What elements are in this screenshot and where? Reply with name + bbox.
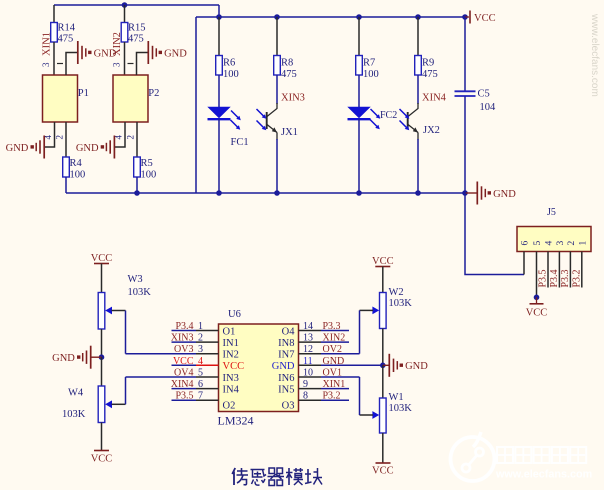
net label P3.3 right [323,321,341,332]
wire rail junction down elbow [465,193,524,275]
wire P2 pin1 to GND elbow [137,53,149,76]
W3 wiper arrow [105,307,125,315]
label JX1 [281,127,298,138]
pin 3 label P1 [41,62,63,67]
wire W4 wiper to OV4 [126,377,172,404]
U6 pin number 4 [198,356,203,367]
resistor R7 [356,56,379,81]
W1 wiper arrow [360,411,380,419]
wire J5 pin P3.3 [569,252,571,288]
wire U6 pin 9 stub [299,388,350,390]
svg-text:www.elecfans.com: www.elecfans.com [495,469,592,481]
svg-text:GND: GND [493,189,516,200]
junction dot rail x277 [274,190,280,196]
resistor R9 [415,56,438,81]
wire R15 top lead [124,5,126,23]
svg-text:GND: GND [6,143,29,154]
svg-text:VCC: VCC [372,256,394,267]
svg-text:XIN4: XIN4 [171,379,194,390]
junction dot rail2 x465 [462,14,468,20]
U6 internal label IN6 [278,373,294,384]
wire W2 wiper to OV2 [359,310,361,353]
net label XIN2 [112,32,123,56]
svg-text:GND: GND [405,361,428,372]
ground GND W3 W4 [52,346,101,369]
svg-text:J5: J5 [547,207,556,218]
pin 4 label P1 [43,135,53,140]
title sensor module char 模 [286,468,303,485]
U6 internal label GND [272,361,295,372]
op-amp U6 box [219,324,299,412]
svg-text:104: 104 [480,102,497,113]
net label VCC left [173,356,194,367]
svg-text:IN5: IN5 [278,384,294,395]
svg-text:4: 4 [198,356,203,367]
svg-text:103K: 103K [62,409,86,420]
svg-text:P3.2: P3.2 [571,269,582,287]
svg-text:XIN1: XIN1 [323,379,346,390]
power VCC right bottom [372,463,394,477]
LED FC2 [348,107,371,119]
svg-text:GND: GND [164,48,187,59]
svg-text:GND: GND [272,361,295,372]
J5 pin number 4 [545,241,555,246]
wire U6 pin 3 stub [172,353,219,355]
svg-text:103K: 103K [389,298,413,309]
wire rail2 to R9 [417,17,419,56]
J5 pin number 3 [556,241,566,246]
U6 pin number 12 [303,344,313,355]
resistor R4 [63,157,86,181]
pin 3 label P2 [112,62,134,67]
junction dot right GND [380,363,386,369]
wire JX2 to rail [417,139,419,193]
svg-text:P3.2: P3.2 [323,391,341,402]
wire rail2 to R8 [276,17,278,56]
U6 pin number 1 [198,321,203,332]
wire U6 pin 10 stub [299,376,360,378]
svg-text:475: 475 [281,69,297,80]
wire rail2 to C5 [464,17,466,91]
pin 4 label P2 [114,135,124,140]
label J5 [547,207,556,218]
ground GND P1 top [78,41,117,64]
U6 pin number 6 [198,379,203,390]
LED FC1 [208,107,231,119]
resistor R8 [274,56,297,81]
wire VCC to W2 [382,267,384,294]
svg-text:P1: P1 [78,88,89,99]
svg-text:VCC: VCC [474,13,496,24]
U6 internal label IN8 [278,338,294,349]
svg-text:FC1: FC1 [231,137,249,148]
net label P3.2 right [323,391,341,402]
net label GND right [323,356,345,367]
resistor R5 [134,157,157,181]
svg-text:IN8: IN8 [278,338,294,349]
svg-text:1: 1 [578,241,588,246]
svg-text:100: 100 [363,69,379,80]
label U6 [228,309,241,320]
wire GND node to W1 [382,365,384,398]
svg-text:GND: GND [76,143,99,154]
svg-text:P3.4: P3.4 [549,269,560,287]
wire U6 pin 12 stub [299,353,360,355]
svg-text:R14: R14 [58,23,76,34]
wire U6 pin 1 stub [172,330,219,332]
wire R4 to bottom rail [65,177,67,193]
svg-text:3: 3 [198,344,203,355]
junction dot left GND [99,354,105,360]
wire W3 to GND node [101,329,103,357]
resistor R15 [121,23,145,45]
svg-text:2: 2 [55,135,65,140]
svg-text:GND: GND [323,356,345,367]
U6 internal label VCC [223,361,245,372]
net label XIN4 [422,93,447,104]
wire GND node to W4 [101,357,103,386]
LED FC1 emission arrows [231,111,241,130]
svg-text:XIN2: XIN2 [323,333,346,344]
U6 internal label IN7 [278,350,294,361]
ground GND P1 bottom [6,136,45,159]
U6 internal label O2 [223,401,236,412]
net label P3.4 [549,269,560,287]
pin 2 label P1 [55,135,65,140]
svg-text:XIN3: XIN3 [171,333,194,344]
svg-text:LM324: LM324 [218,414,254,428]
svg-text:IN2: IN2 [223,350,239,361]
net label OV3 left [174,344,193,355]
U6 internal label O4 [282,326,296,337]
wire W3 wiper to OV3 [126,311,172,354]
net label OV1 right [323,368,342,379]
svg-text:P3.4: P3.4 [175,321,193,332]
U6 internal label O3 [282,401,295,412]
svg-text:W3: W3 [128,274,143,285]
net label P3.2 [571,269,582,287]
capacitor C5 [455,89,497,114]
svg-text:P3.3: P3.3 [560,269,571,287]
junction dot rail x219 [216,190,222,196]
net label P3.5 left [175,391,193,402]
wire U6 pin 8 stub [299,399,350,401]
ground GND P2 top [148,41,187,64]
watermark vertical url top right [589,13,600,97]
junction dot rail x465 [462,190,468,196]
junction dot rail x418 [415,190,421,196]
potentiometer W3 [98,274,151,329]
wire W2 to GND node [382,329,384,366]
U6 pin number 9 [303,379,308,390]
svg-text:9: 9 [303,379,308,390]
wire top rail 2 [196,16,465,18]
junction dot node XIN2 top [122,2,128,8]
W2 wiper arrow [360,307,380,315]
potentiometer W2 [380,287,413,329]
wire P2 pin2 to R5 [136,122,138,157]
svg-text:GND: GND [52,353,75,364]
net label XIN1 right [323,379,346,390]
title sensor module char 块 [305,468,322,485]
connector P2 [113,75,159,122]
ground GND right rail [465,182,516,205]
svg-text:OV4: OV4 [174,368,193,379]
wire W4 to VCC bottom [101,423,103,451]
J5 pin number 1 [578,241,588,246]
wire J5 pin 6 [523,252,525,275]
svg-text:4: 4 [545,241,555,246]
wire rail2 to R6 [218,17,220,56]
net label P3.4 left [175,321,193,332]
svg-text:475: 475 [422,69,438,80]
connector P1 [43,75,89,122]
svg-text:7: 7 [198,391,203,402]
net label XIN3 left [171,333,194,344]
svg-text:W4: W4 [68,388,84,399]
svg-text:100: 100 [70,170,86,181]
svg-text:W1: W1 [389,392,404,403]
svg-text:GND: GND [94,48,117,59]
W4 wiper arrow [105,400,125,408]
svg-text:475: 475 [58,34,74,45]
svg-text:8: 8 [303,391,308,402]
svg-text:13: 13 [303,333,313,344]
wire left boundary x196 [195,17,197,193]
wire R9 to JX2 [417,75,419,104]
U6 internal label O1 [223,326,236,337]
svg-text:VCC: VCC [91,253,113,264]
JX1 receive arrows [257,109,267,130]
wire R8 to JX1 [276,75,278,104]
svg-text:2: 2 [126,135,136,140]
svg-text:IN1: IN1 [223,338,239,349]
U6 internal label IN3 [223,373,239,384]
wire R7 to LED FC2 [358,75,360,108]
svg-text:P3.3: P3.3 [323,321,341,332]
wire W1 to VCC bottom [382,433,384,463]
power VCC right top [372,256,394,267]
U6 internal label IN5 [278,384,294,395]
svg-text:3: 3 [556,241,566,246]
junction dot rail2 x219 [216,14,222,20]
svg-text:JX2: JX2 [423,125,440,136]
svg-text:OV3: OV3 [174,344,193,355]
wire R6 to LED FC1 [218,75,220,108]
svg-text:5: 5 [198,368,203,379]
svg-text:O3: O3 [282,401,295,412]
svg-text:VCC: VCC [372,466,394,477]
svg-text:12: 12 [303,344,313,355]
label LM324 [218,414,254,428]
junction dot rail x137 [134,190,140,196]
U6 internal label IN4 [223,384,240,395]
svg-text:OV2: OV2 [323,344,342,355]
resistor R14 [51,23,76,45]
wire bottom rail [66,192,465,194]
svg-text:R9: R9 [422,58,434,69]
svg-text:3: 3 [41,62,51,67]
ground GND P2 bottom [76,136,115,159]
net label P3.5 [538,269,549,287]
wire J5 pin P3.5 [547,252,549,288]
wire rail2 to R7 [358,17,360,56]
junction dot rail2 x418 [415,14,421,20]
U6 internal label IN2 [223,350,239,361]
svg-text:VCC: VCC [526,308,548,319]
wire P1 pin2 to R4 [65,122,67,157]
power VCC top right [465,11,496,25]
junction dot rail2 x277 [274,14,280,20]
wire U6 pin 11 stub [299,364,383,366]
wire U6 pin 5 stub [172,376,219,378]
LED FC2 emission arrows [370,109,380,129]
wire R14 to P1 pin 3 [53,42,55,75]
svg-text:IN4: IN4 [223,384,240,395]
wire R15 to P2 pin 3 [124,42,126,75]
label FC2 [380,110,397,121]
connector J5 [517,227,591,252]
svg-text:103K: 103K [128,287,152,298]
watermark text dianzifashaoyou [497,447,586,463]
U6 pin number 10 [303,368,313,379]
potentiometer W1 [380,392,413,433]
wire C5 to rail [464,97,466,194]
svg-text:R15: R15 [128,23,146,34]
title sensor module char 感 [251,470,267,486]
label FC1 [231,137,249,148]
svg-text:JX1: JX1 [281,127,298,138]
svg-text:IN7: IN7 [278,350,294,361]
wire U6 pin 14 stub [299,330,350,332]
svg-text:475: 475 [128,34,144,45]
svg-text:O4: O4 [282,326,296,337]
svg-text:5: 5 [533,241,543,246]
svg-text:2: 2 [567,241,577,246]
wire R14 top lead [53,5,55,23]
svg-text:OV1: OV1 [323,368,342,379]
wire FC1 to rail [218,119,220,193]
svg-text:VCC: VCC [223,361,245,372]
watermark url bottom [495,469,592,481]
svg-text:R6: R6 [223,58,235,69]
svg-text:R4: R4 [70,158,83,169]
junction dot rail x359 [356,190,362,196]
svg-text:1: 1 [198,321,203,332]
power VCC left bottom [91,451,113,465]
wire top rail 1 [54,4,219,6]
net label P3.3 [560,269,571,287]
transistor JX2 [408,103,418,140]
wire U6 pin 7 stub [172,399,219,401]
wire J5 pin 5 to VCC [536,252,538,298]
net label XIN1 [42,32,53,56]
svg-text:XIN4: XIN4 [422,93,447,104]
svg-text:O1: O1 [223,326,236,337]
svg-text:3: 3 [112,62,122,67]
svg-text:www.elecfans.com: www.elecfans.com [589,13,600,97]
wire rail1 to rail2 drop [218,5,220,17]
U6 pin number 13 [303,333,313,344]
wire FC2 to rail [358,119,360,193]
svg-text:VCC: VCC [91,454,113,465]
power VCC J5 [526,297,548,318]
J5 pin number 5 [533,241,543,246]
J5 pin number 6 [521,241,531,246]
junction dot rail2 x359 [356,14,362,20]
net label OV2 right [323,344,342,355]
svg-text:6: 6 [521,241,531,246]
U6 pin number 14 [303,321,313,332]
svg-text:XIN3: XIN3 [281,93,305,104]
svg-text:11: 11 [303,356,313,367]
wire W1 wiper to OV1 [359,377,361,415]
svg-text:R5: R5 [141,158,153,169]
net label OV4 left [174,368,193,379]
svg-text:P2: P2 [148,88,159,99]
svg-text:P3.5: P3.5 [175,391,193,402]
svg-text:IN6: IN6 [278,373,294,384]
power VCC left top [91,253,113,264]
wire P1 pin4 to GND elbow [44,122,55,147]
resistor R6 [216,56,239,81]
JX2 receive arrows [400,109,410,130]
U6 pin number 11 [303,356,313,367]
wire J5 pin P3.2 [581,252,583,288]
svg-text:IN3: IN3 [223,373,239,384]
title sensor module char 器 [268,468,285,486]
wire JX1 to rail [276,139,278,193]
svg-text:103K: 103K [389,403,413,414]
U6 pin number 3 [198,344,203,355]
svg-text:FC2: FC2 [380,110,397,121]
svg-text:U6: U6 [228,309,241,320]
svg-text:R8: R8 [281,58,293,69]
U6 internal label IN1 [223,338,239,349]
wire R5 to bottom rail [136,177,138,193]
watermark logo circle [451,432,495,481]
J5 pin number 2 [567,241,577,246]
label JX2 [423,125,440,136]
U6 pin number 5 [198,368,203,379]
net label XIN4 left [171,379,194,390]
wire P2 pin4 to GND elbow [114,122,125,147]
net label XIN3 [281,93,305,104]
U6 pin number 2 [198,333,203,344]
wire VCC to W3 [101,264,103,294]
svg-text:14: 14 [303,321,313,332]
svg-text:W2: W2 [389,287,404,298]
wire U6 pin 2 stub [172,341,219,343]
svg-text:R7: R7 [363,58,375,69]
wire P1 pin1 to GND elbow [66,53,78,76]
svg-text:2: 2 [198,333,203,344]
svg-text:XIN1: XIN1 [42,32,53,56]
pin 2 label P2 [126,135,136,140]
title sensor module char 传 [232,468,248,485]
svg-text:VCC: VCC [173,356,194,367]
net label XIN2 right [323,333,346,344]
svg-text:10: 10 [303,368,313,379]
svg-text:C5: C5 [478,89,490,100]
junction dot J5 VCC [534,295,540,301]
wire U6 pin 4 VCC stub [172,364,219,366]
svg-text:100: 100 [141,170,157,181]
wire J5 pin P3.4 [558,252,560,288]
wire U6 pin 13 stub [299,341,350,343]
wire U6 pin 6 stub [172,388,219,390]
U6 pin number 7 [198,391,203,402]
